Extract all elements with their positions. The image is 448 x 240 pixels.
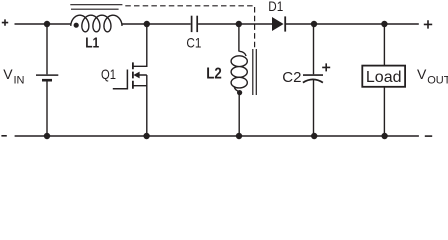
junction dot load bottom bbox=[381, 133, 387, 139]
wire L2 top lead bbox=[238, 24, 240, 52]
load box wires bbox=[383, 24, 385, 136]
diode D1 bbox=[272, 16, 285, 31]
svg-text:C1: C1 bbox=[186, 35, 201, 51]
node VIN+ plus sign bbox=[2, 19, 8, 25]
inductor L1 phase dot bbox=[74, 23, 79, 28]
svg-text:Load: Load bbox=[366, 69, 402, 86]
svg-text:OUT: OUT bbox=[427, 75, 448, 87]
svg-text:D1: D1 bbox=[268, 0, 283, 14]
inductor L2 phase dot bbox=[237, 90, 242, 95]
wire top rail L1-to-C1 segment bbox=[122, 23, 191, 25]
svg-text:V: V bbox=[417, 66, 427, 82]
junction dot Q1 drain top bbox=[144, 21, 150, 27]
inductor L2 winding bbox=[231, 51, 247, 91]
junction dot load top bbox=[381, 21, 387, 27]
junction dot Q1 source bottom bbox=[143, 133, 149, 139]
node VIN- minus sign bbox=[1, 135, 6, 137]
capacitor C2 polarity plus bbox=[322, 63, 330, 71]
capacitor C1 left plate bbox=[191, 16, 193, 32]
svg-text:IN: IN bbox=[14, 75, 25, 87]
svg-text:L2: L2 bbox=[206, 66, 222, 83]
load box bbox=[362, 66, 405, 87]
capacitor C2 bbox=[303, 24, 323, 136]
node VOUT- minus sign bbox=[425, 135, 432, 137]
wire bottom rail bbox=[15, 135, 419, 137]
svg-text:C2: C2 bbox=[282, 69, 301, 86]
label VIN bbox=[3, 66, 24, 87]
junction dot L2 top bbox=[236, 21, 242, 27]
junction dot battery bottom bbox=[44, 133, 50, 139]
inductor L2 core bars bbox=[253, 49, 256, 95]
svg-text:V: V bbox=[3, 66, 13, 82]
node VOUT+ plus sign bbox=[424, 20, 432, 28]
transistor Q1 bbox=[113, 24, 147, 136]
wire top rail C1-to-D1 segment bbox=[198, 23, 272, 25]
battery VIN bbox=[36, 24, 58, 136]
label VOUT bbox=[417, 66, 448, 87]
junction dot C2 top bbox=[311, 21, 317, 27]
junction dot L2 bottom bbox=[236, 133, 242, 139]
wire top rail D1-to-right segment bbox=[285, 23, 419, 25]
capacitor C1 right plate bbox=[196, 16, 198, 32]
svg-text:L1: L1 bbox=[85, 35, 99, 52]
coupling dashed line L1 to L2 bbox=[125, 6, 254, 49]
junction dot C2 bottom bbox=[311, 133, 317, 139]
svg-text:Q1: Q1 bbox=[101, 66, 116, 82]
wire L2 bottom lead bbox=[238, 91, 240, 136]
junction dot battery top bbox=[44, 21, 50, 27]
wire top rail left segment bbox=[15, 23, 72, 25]
inductor L1 core bars bbox=[70, 5, 122, 10]
inductor L1 winding bbox=[71, 15, 122, 32]
